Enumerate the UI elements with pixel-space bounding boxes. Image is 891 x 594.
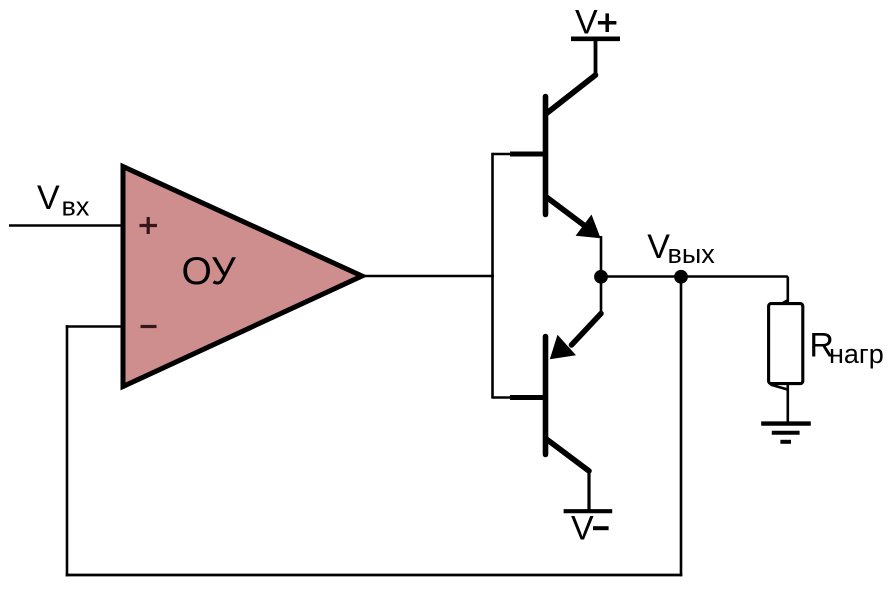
wire base stub Q2 [493, 396, 514, 399]
wire feedback: bottom horizontal [66, 574, 683, 577]
power V+ bar [571, 36, 620, 41]
svg-text:V: V [575, 3, 598, 41]
transistor Q1 emitter lead with arrow [547, 198, 585, 227]
wire resistor to ground [786, 384, 789, 424]
wire down into resistor [786, 277, 789, 306]
wire nick at resistor bottom [771, 385, 789, 390]
wire input Vвх to op-amp + input [9, 224, 122, 227]
svg-text:нагр: нагр [829, 339, 884, 369]
transistor Q2 (PNP bottom) emitter wire from node [600, 277, 603, 315]
wire vertical base bus [491, 153, 494, 399]
transistor Q1 (NPN top) base lead [510, 152, 544, 157]
transistor Q2 collector lead [547, 440, 589, 472]
svg-text:вых: вых [668, 239, 716, 269]
wire nick at resistor top [781, 300, 789, 304]
transistor Q2 bar [543, 337, 549, 455]
wire Vвых dot to resistor [681, 275, 788, 278]
op-amp - input marker [141, 325, 157, 328]
node junction dot 2 (Vвых) [674, 270, 688, 284]
op-amp U1 [123, 167, 362, 387]
resistor Rнагр [769, 304, 803, 384]
wire collector stub to V+ [594, 39, 598, 77]
svg-text:V: V [37, 179, 60, 217]
wire feedback into - input [66, 325, 122, 328]
ground [761, 424, 811, 442]
wire feedback: left vertical [66, 325, 69, 576]
svg-text:ОУ: ОУ [182, 250, 236, 293]
transistor Q1 bar [543, 97, 549, 215]
power V- bar [564, 509, 613, 513]
transistor Q2 base lead [510, 395, 544, 400]
wire feedback: down from Vвых node [680, 277, 683, 576]
transistor Q2 emitter lead with arrow [572, 314, 602, 346]
wire base stub Q1 [493, 153, 514, 156]
wire op-amp output to bases node [361, 275, 494, 278]
wire collector stub to V- [587, 469, 590, 511]
op-amp + input marker [140, 217, 158, 234]
wire output node to Vвых dot [601, 275, 681, 278]
node junction dot 1 [594, 270, 608, 284]
svg-text:V: V [571, 510, 594, 548]
wire Q1 emitter to output node [600, 236, 603, 277]
transistor Q1 collector lead [547, 75, 596, 113]
svg-text:вх: вх [62, 192, 90, 222]
